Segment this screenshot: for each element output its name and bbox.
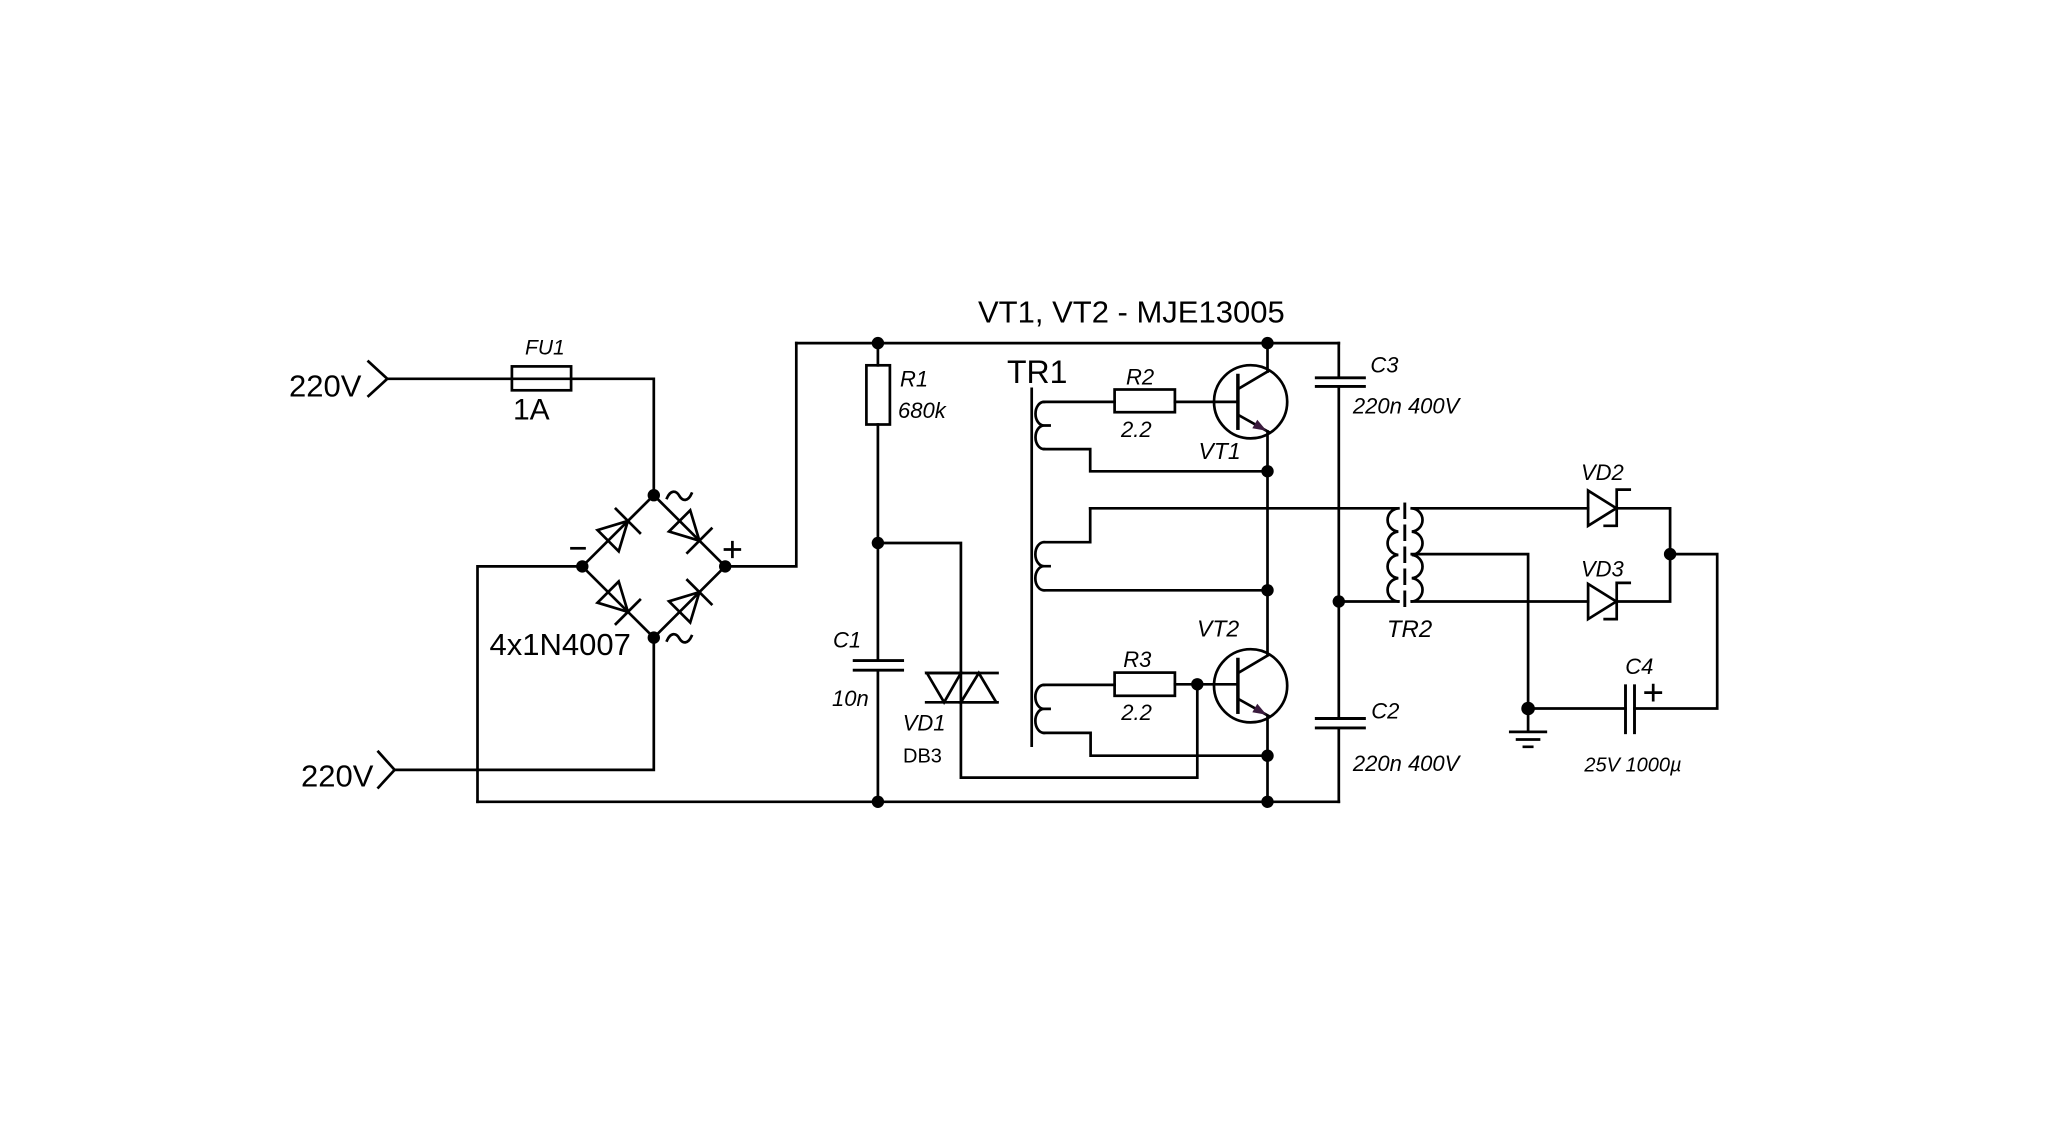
wire VT2 emitter to emitter node: [1266, 716, 1269, 756]
diac VD1 center lead: [960, 673, 963, 702]
VT1 collector lead: [1239, 371, 1268, 388]
svg-text:220V: 220V: [289, 369, 362, 404]
wire TR1 winding III bottom to VT2 emitter node: [1044, 733, 1268, 756]
bridge edge ~bottom to plus: [654, 566, 725, 637]
terminal 220V top (input chevron): [369, 362, 388, 397]
wire ground node to C4 minus plate: [1528, 707, 1625, 710]
svg-text:R2: R2: [1126, 365, 1154, 390]
capacitor C1 plate top: [854, 659, 902, 662]
TR1 winding II bumps: [1035, 542, 1049, 590]
capacitor C2 plate bottom: [1316, 726, 1364, 729]
wire C3 bottom to mid node: [1337, 387, 1340, 602]
wire R1 top lead: [877, 343, 880, 365]
TR2 core (dashed): [1403, 504, 1406, 606]
wire output node to C4 plus lead: [1635, 554, 1718, 708]
wire top rail: [796, 342, 1339, 345]
capacitor C3 plate top: [1316, 376, 1364, 379]
ground symbol: [1510, 709, 1546, 747]
bridge edge ~top to plus: [654, 495, 725, 566]
svg-text:DB3: DB3: [903, 746, 942, 768]
junction VD2/VD3 output node: [1664, 548, 1676, 560]
transistor VT1 body: [1214, 365, 1287, 438]
wire C3 top lead: [1337, 343, 1340, 378]
wire R1/C1 node to diac VD1: [878, 543, 961, 673]
svg-text:C3: C3: [1370, 353, 1399, 378]
junction C1 / bottom rail: [872, 796, 884, 808]
label plus (bridge +): [725, 542, 740, 557]
svg-text:680k: 680k: [898, 398, 947, 423]
terminal 220V bottom (input chevron): [378, 752, 394, 788]
junction R3 / VT2 base node: [1191, 678, 1203, 690]
wire C1 to bottom rail: [877, 670, 880, 801]
svg-text:C1: C1: [833, 628, 861, 653]
svg-text:VD1: VD1: [903, 711, 946, 736]
svg-text:VT1: VT1: [1199, 438, 1241, 464]
wire VD1 to R3/VT2-base node: [961, 684, 1197, 777]
svg-text:R1: R1: [900, 366, 928, 391]
diac VD1 top bar: [926, 672, 997, 675]
junction TR2 primary bottom / C2-C3 mid node: [1333, 595, 1345, 607]
VT1 emitter lead: [1239, 415, 1268, 431]
svg-text:220n 400V: 220n 400V: [1352, 751, 1462, 776]
wire TR2 primary bottom to C2/C3 mid node: [1339, 600, 1399, 603]
VT2 collector lead: [1239, 655, 1268, 672]
wire TR1 winding III top to R3: [1044, 684, 1115, 687]
junction VT1 emitter node: [1261, 465, 1273, 477]
wire TR1 winding I bottom to VT1 emitter node: [1044, 449, 1268, 471]
junction VT2 emitter node: [1261, 750, 1273, 762]
wire mid node to C2 top: [1337, 602, 1340, 719]
wire midpoint node to VT2 collector: [1266, 471, 1269, 655]
wire VD2 cathode to output node: [1617, 508, 1670, 554]
wire TR1 winding I top to R2: [1044, 401, 1115, 404]
capacitor C4 minus plate: [1624, 686, 1627, 733]
label ~ bottom: [667, 634, 692, 642]
label plus (C4 +): [1646, 685, 1661, 700]
bridge edge minus to ~bottom: [582, 566, 654, 637]
transformer TR2 primary winding: [1388, 508, 1399, 601]
junction bridge node ~ top: [648, 489, 660, 501]
diac VD1 bottom bar: [926, 701, 997, 704]
wire bridge plus to top rail: [725, 343, 796, 566]
wire TR2 secondary bottom to VD3: [1412, 600, 1588, 603]
fuse FU1: [512, 366, 571, 390]
wire TR2 secondary top to VD2: [1412, 507, 1588, 510]
capacitor C2 plate top: [1316, 717, 1364, 720]
junction R1/C1/VD1 node: [872, 537, 884, 549]
svg-text:2.2: 2.2: [1120, 417, 1152, 442]
svg-text:VD3: VD3: [1581, 557, 1625, 582]
svg-text:TR2: TR2: [1387, 616, 1432, 643]
wire VT1 emitter to midpoint node: [1266, 432, 1269, 472]
TR1 winding I bumps: [1036, 402, 1050, 449]
junction bridge node minus: [576, 560, 588, 572]
wire R1 bottom to C1: [877, 425, 880, 661]
wire C2 bottom to bottom rail: [1337, 728, 1340, 802]
svg-text:VT1, VT2 - MJE13005: VT1, VT2 - MJE13005: [978, 294, 1285, 329]
transformer TR2 secondary winding: [1412, 508, 1423, 601]
svg-text:25V 1000µ: 25V 1000µ: [1583, 755, 1681, 777]
junction R1 top / top rail: [872, 337, 884, 349]
svg-text:2.2: 2.2: [1120, 700, 1152, 725]
diac VD1 left triangle: [927, 673, 961, 702]
resistor R2: [1115, 390, 1175, 413]
wire VD3 cathode to output node: [1617, 554, 1670, 601]
VT1 base bar: [1236, 376, 1240, 429]
wire 220V top to bridge ~ top (through fuse FU1): [387, 379, 654, 495]
diode VD2 cathode bar (schottky): [1605, 490, 1630, 526]
svg-text:VD2: VD2: [1581, 460, 1624, 485]
junction bridge node plus: [719, 560, 731, 572]
wire TR1 winding II bottom to midpoint node: [1044, 589, 1268, 592]
svg-text:10n: 10n: [832, 686, 869, 711]
svg-text:4x1N4007: 4x1N4007: [490, 627, 631, 662]
svg-text:FU1: FU1: [525, 337, 565, 360]
junction bridge node ~ bottom: [648, 631, 660, 643]
svg-text:C2: C2: [1371, 699, 1399, 724]
svg-text:R3: R3: [1123, 647, 1152, 672]
bridge edge minus to ~top: [582, 495, 654, 566]
capacitor C4 plus plate: [1633, 686, 1636, 733]
diode VD2 triangle: [1588, 491, 1616, 526]
capacitor C3 plate bottom: [1316, 385, 1364, 388]
TR1 winding III bumps: [1035, 685, 1049, 733]
bridge diode D3 (minus to ~bottom): [596, 580, 640, 624]
wire top rail to VT1 collector: [1266, 343, 1269, 371]
junction midpoint node (VT2 collector): [1261, 584, 1273, 596]
wire TR1 winding II / TR2 primary feed: [1090, 507, 1398, 510]
diode VD3 cathode bar (schottky): [1605, 583, 1630, 619]
wire bottom rail: [478, 800, 1339, 803]
label minus (bridge -): [572, 547, 585, 550]
label ~ top: [667, 492, 692, 500]
VT2 base bar: [1236, 660, 1240, 713]
VT1 emitter arrow: [1252, 420, 1266, 431]
svg-text:220n 400V: 220n 400V: [1352, 394, 1462, 419]
transistor VT2 body: [1214, 649, 1287, 722]
wire R3 to VT2 base: [1175, 683, 1238, 686]
bridge diode D2 (~top to plus): [668, 509, 712, 553]
svg-text:VT2: VT2: [1197, 616, 1239, 642]
VT2 emitter arrow: [1252, 704, 1266, 715]
wire TR2 center tap to ground node: [1412, 554, 1528, 708]
bridge diode D1 (minus to ~top): [596, 509, 640, 553]
wire TR1 winding II top lead: [1044, 508, 1090, 542]
bridge diode D4 (~bottom to plus): [668, 580, 712, 624]
resistor R3: [1115, 673, 1175, 696]
svg-text:220V: 220V: [301, 759, 374, 794]
svg-text:C4: C4: [1625, 654, 1653, 679]
wire VT2 emitter node to bottom rail: [1266, 756, 1269, 802]
svg-text:TR1: TR1: [1007, 354, 1067, 390]
capacitor C1 plate bottom: [854, 669, 902, 672]
VT2 emitter lead: [1239, 699, 1268, 715]
svg-text:1A: 1A: [513, 394, 550, 427]
junction VT1 collector / top rail: [1261, 337, 1273, 349]
wire 220V bottom to bridge ~ bottom: [395, 638, 654, 770]
junction ground node: [1521, 702, 1535, 716]
transformer TR1 core: [1030, 389, 1033, 746]
diac VD1 right triangle: [961, 673, 996, 702]
diode VD3 triangle: [1588, 584, 1616, 619]
junction VT2 emitter line / bottom rail: [1261, 796, 1273, 808]
wire bridge minus to bottom rail: [478, 566, 583, 801]
wire R2 to VT1 base: [1175, 401, 1238, 404]
resistor R1: [866, 365, 890, 424]
